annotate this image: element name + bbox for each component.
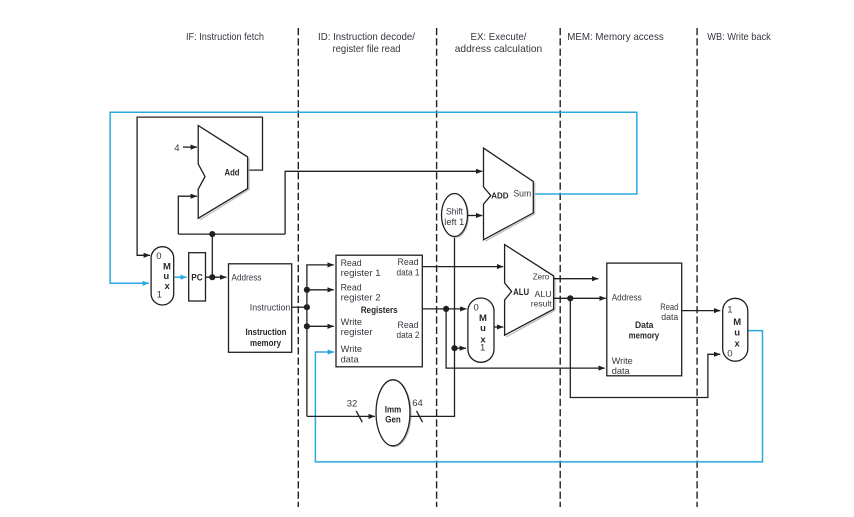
adder ADD (branch target) shadow: [485, 183, 534, 242]
imm gen input already drawn; ellipse Imm Gen shadow: [377, 381, 411, 447]
wire imm to EX mux input 1: [455, 347, 467, 349]
svg-text:Shift: Shift: [446, 207, 464, 217]
node ALU result junction: [567, 295, 573, 301]
wire 4 constant into Add: [183, 146, 197, 148]
svg-text:register file read: register file read: [333, 44, 401, 55]
svg-text:64: 64: [412, 398, 423, 409]
svg-text:WB: Write back: WB: Write back: [707, 32, 771, 43]
wire PC to Add lower input: [178, 196, 197, 234]
stage separator dashed line 3: [559, 28, 561, 507]
wire instruction output: [292, 306, 307, 308]
wire to Imm Gen: [307, 415, 375, 417]
svg-text:0: 0: [474, 303, 479, 314]
wire write-back (blue, WB mux to Registers write data): [315, 331, 762, 462]
svg-text:EX: Execute/: EX: Execute/: [471, 32, 527, 43]
svg-text:Instruction: Instruction: [250, 303, 291, 313]
svg-text:Read: Read: [660, 302, 678, 312]
svg-text:Instruction: Instruction: [246, 327, 287, 337]
wire instruction distribution vertical: [307, 265, 334, 417]
svg-text:register 1: register 1: [341, 268, 381, 278]
svg-text:left 1: left 1: [444, 217, 464, 227]
wire IF mux output to PC (blue): [175, 276, 187, 278]
shifter Shift left 1: [442, 194, 468, 237]
adder Add (IF): [198, 126, 247, 219]
svg-text:u: u: [734, 328, 740, 339]
node instr junction write register: [304, 323, 310, 329]
svg-text:IF: Instruction fetch: IF: Instruction fetch: [186, 32, 264, 43]
svg-text:Address: Address: [612, 293, 642, 303]
svg-text:ID: Instruction decode/: ID: Instruction decode/: [318, 32, 415, 43]
wire Zero output: [554, 278, 599, 280]
stage separator dashed line 1: [297, 28, 299, 507]
svg-text:x: x: [164, 281, 170, 292]
register PC: [189, 253, 206, 301]
register file Registers: [336, 255, 422, 367]
wire branch-target feedback (blue, Sum to IF mux input 1): [110, 112, 637, 283]
wire to write register: [307, 325, 334, 327]
wire shift to ADD: [468, 215, 483, 217]
wire ALU result down to WB mux input 0: [570, 298, 720, 397]
svg-text:Registers: Registers: [361, 305, 398, 315]
svg-text:ALU: ALU: [535, 289, 552, 299]
svg-text:ADD: ADD: [491, 191, 508, 201]
svg-text:Read: Read: [341, 282, 362, 292]
svg-text:Read: Read: [398, 320, 419, 330]
wire read data 2: [422, 308, 466, 310]
wire PC riser to EX ADD top input: [285, 171, 482, 234]
svg-text:Imm: Imm: [385, 405, 402, 415]
node instr junction read reg 2: [304, 287, 310, 293]
svg-text:Gen: Gen: [385, 415, 401, 425]
wire PC horizontal segment: [178, 233, 285, 235]
memory Data memory: [607, 263, 682, 376]
svg-text:PC: PC: [191, 273, 203, 283]
shifter Shift left 1 shadow: [442, 194, 468, 237]
svg-text:Zero: Zero: [533, 271, 550, 281]
mux U-IF (pc source): [151, 247, 174, 305]
node imm/shift junction: [451, 345, 457, 351]
svg-text:Write: Write: [341, 344, 363, 354]
svg-text:address calculation: address calculation: [455, 44, 543, 55]
wire read data 2 to data memory write data: [446, 309, 605, 368]
svg-text:Write: Write: [612, 356, 633, 366]
svg-text:M: M: [733, 317, 741, 328]
adder Add (IF) shadow: [200, 158, 249, 220]
node instr junction main: [304, 304, 310, 310]
wire ALU result to data memory address: [554, 297, 606, 299]
svg-text:0: 0: [727, 348, 732, 359]
svg-text:data 2: data 2: [397, 330, 420, 340]
svg-text:1: 1: [480, 342, 485, 353]
svg-text:data: data: [612, 366, 631, 376]
alu main ALU: [505, 245, 554, 336]
wire PC vertical from junction: [211, 234, 213, 277]
wire PC+4 feedback loop to IF mux input 0: [137, 117, 262, 255]
svg-text:Add: Add: [225, 167, 240, 177]
mux U-WB (write-back source): [723, 298, 748, 361]
memory Instruction memory: [229, 264, 292, 353]
svg-text:Write: Write: [341, 317, 363, 327]
wire read data to WB mux input 1: [682, 310, 721, 312]
svg-text:Address: Address: [232, 273, 262, 283]
node read data 2 junction: [443, 306, 449, 312]
adder ADD (branch target): [484, 148, 534, 240]
node PC+4 junction: [209, 231, 215, 237]
svg-text:4: 4: [174, 143, 179, 154]
sign extend Imm Gen: [376, 380, 410, 446]
mux U-EX (ALU source): [468, 298, 494, 362]
svg-text:data 1: data 1: [397, 267, 420, 277]
svg-text:ALU: ALU: [513, 287, 529, 297]
svg-text:Read: Read: [398, 257, 419, 267]
bus slash 64: [417, 411, 423, 422]
wire Imm Gen output: [410, 237, 455, 417]
wire PC output to instruction memory address: [206, 276, 227, 278]
stage separator dashed line 2: [436, 28, 438, 507]
svg-text:Data: Data: [635, 320, 654, 330]
svg-text:1: 1: [157, 290, 162, 301]
node PC output junction: [209, 274, 215, 280]
svg-text:32: 32: [347, 399, 358, 410]
wire read data 1 to ALU: [422, 266, 503, 268]
svg-text:Sum: Sum: [513, 188, 531, 198]
svg-text:Read: Read: [341, 258, 362, 268]
svg-text:1: 1: [727, 305, 732, 316]
svg-text:data: data: [661, 312, 679, 322]
wire EX mux output to ALU: [494, 326, 503, 328]
svg-text:x: x: [735, 339, 741, 350]
bus slash 32: [356, 411, 362, 422]
svg-text:result: result: [531, 299, 552, 309]
svg-text:0: 0: [156, 251, 161, 262]
svg-text:data: data: [341, 354, 360, 364]
stage separator dashed line 4: [696, 28, 698, 507]
svg-text:register: register: [341, 327, 373, 337]
svg-text:memory: memory: [250, 338, 281, 348]
alu main ALU shadow: [506, 277, 555, 337]
svg-text:register 2: register 2: [341, 293, 381, 303]
svg-text:memory: memory: [629, 330, 660, 340]
svg-text:MEM: Memory access: MEM: Memory access: [567, 32, 664, 43]
wire to read register 2: [307, 289, 334, 291]
svg-text:u: u: [480, 323, 486, 334]
